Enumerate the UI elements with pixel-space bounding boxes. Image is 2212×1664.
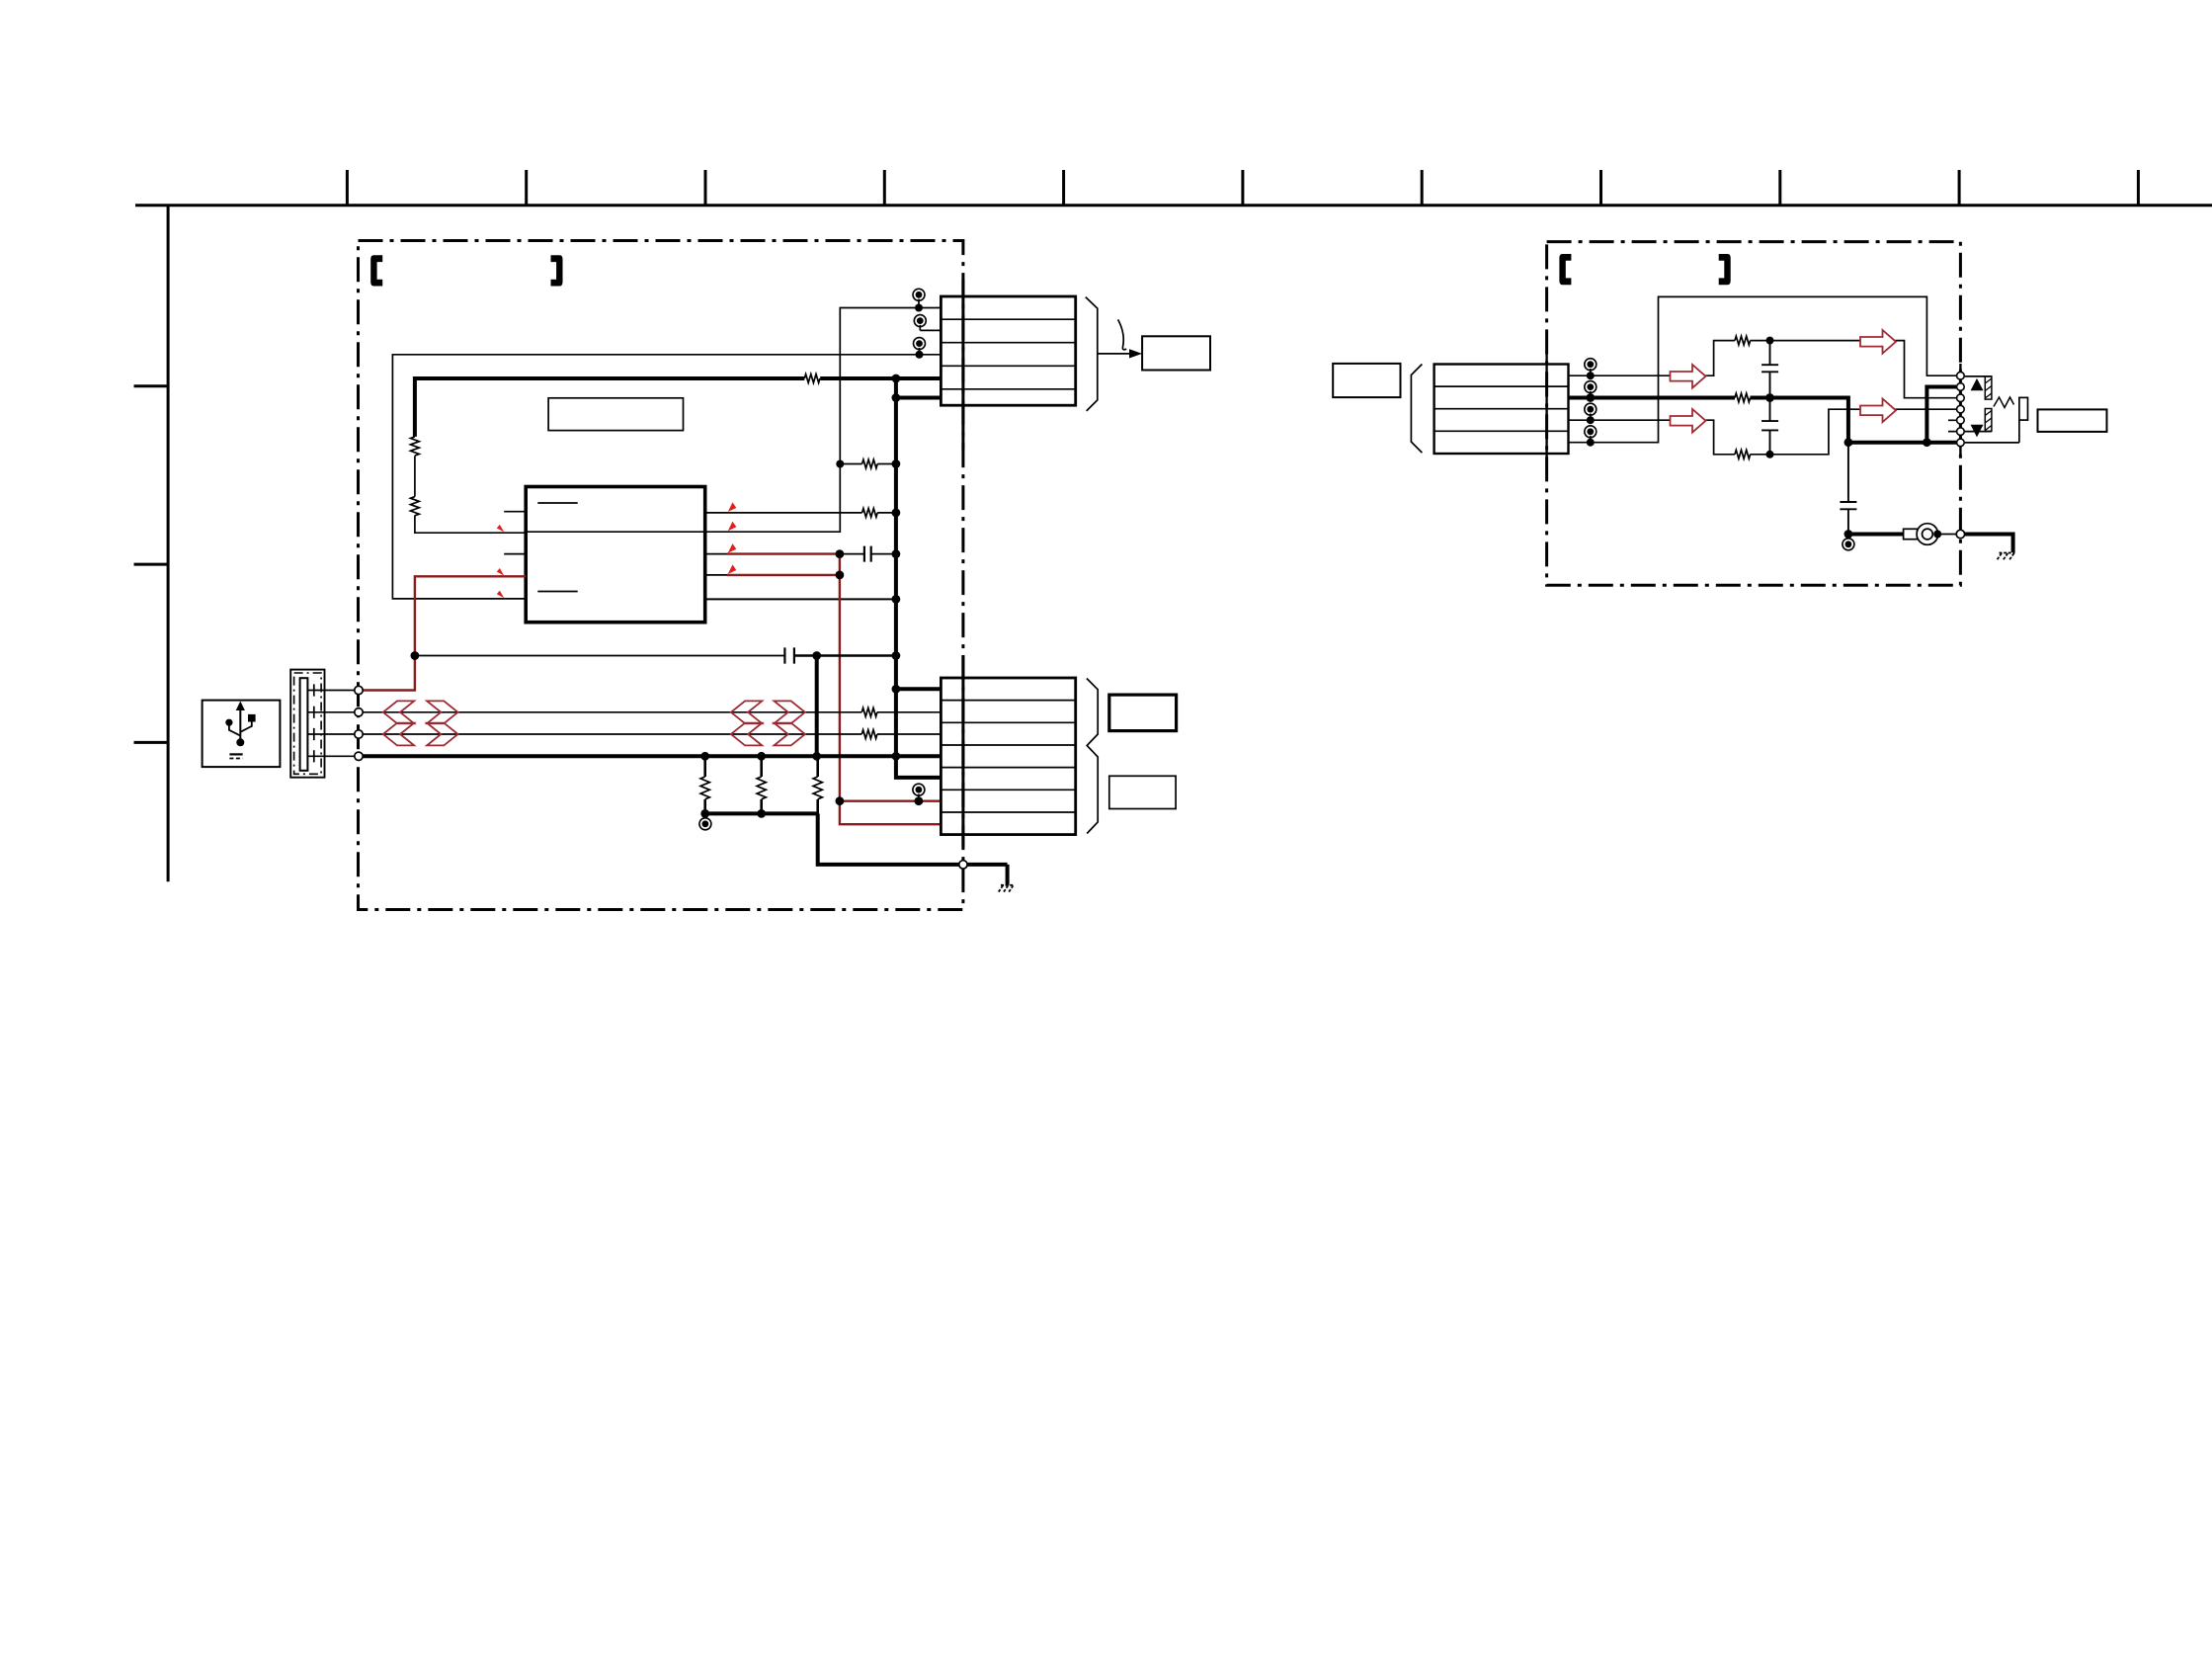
resistor R (x872-888 y469.5) — [862, 459, 878, 468]
wire (thick): border node to chassis ground — [1965, 535, 2013, 553]
wire: resistor to bus — [877, 463, 896, 465]
USB logo box — [203, 701, 281, 768]
frame left tick 2 — [134, 563, 169, 566]
resistor R vertical (x713.7 y786-809) — [700, 777, 709, 799]
wire: bus to top connector row5 — [896, 396, 942, 400]
USB receptacle shield (dash-dot) — [294, 673, 322, 774]
wire (thick): corner x419.9 via resistor chain top — [415, 378, 804, 437]
capacitor C3 (x1870.9 y508-515.3 vertical) — [1840, 443, 1856, 535]
resistor R (x872-888 y720.8) — [861, 707, 877, 716]
dash-dot block border (right board) — [1547, 242, 1961, 586]
wire: resistor to bottom connector row2 — [877, 711, 942, 713]
connector CN top brace — [1086, 297, 1098, 411]
label box (CN bottom lower) — [1109, 776, 1176, 808]
USB pin 1 — [307, 684, 354, 696]
IC U1 NC stub pin (left, upper) — [504, 511, 526, 513]
resistor R (x1756-1771.5 y344.6) — [1735, 336, 1751, 345]
capacitor C (x794-804 y663.5) — [784, 647, 794, 663]
wire: resistor1 bottom — [703, 799, 706, 813]
connector CN bottom brace — [1087, 679, 1098, 834]
frame tick 2 — [525, 170, 528, 206]
label box (right of jack) — [2038, 409, 2107, 432]
jack spring contact zigzag — [1994, 397, 2014, 408]
solid border segment through jack contacts — [1959, 364, 1961, 455]
wire: pin1 up to resistor row — [1706, 341, 1736, 376]
solder lug (ring terminal) — [1904, 524, 1938, 545]
red signal arrowhead (IC right pin y561) — [728, 543, 737, 553]
red signal arrowhead (IC left pin y606) — [497, 591, 505, 599]
IC U1 NC stub pin (left, lower) — [504, 553, 526, 555]
node: open circle on border at ground wire — [959, 861, 967, 869]
USB trident symbol — [225, 702, 255, 759]
resistor R (x1756-1771.5 y402.5) — [1735, 393, 1751, 402]
dash-dot block border (left board) — [359, 241, 963, 910]
test point TP (top connector pin2) — [914, 315, 926, 331]
wire (red net): USB pin1 up to IC left pin y583.3 — [364, 576, 527, 690]
frame tick 6 — [1241, 170, 1244, 206]
USB receptacle inner blade — [300, 678, 308, 771]
label box (CN bottom upper, thick) — [1109, 695, 1177, 731]
wire: resistor to bus — [877, 512, 896, 514]
red signal arrowhead (IC left pin y539) — [497, 525, 505, 533]
wire (thick): right pin2 GND to resistor — [1569, 396, 1736, 400]
wire: right pin4 loop over top to jack detect contact — [1569, 296, 1957, 442]
resistor R vertical (x827.7 y786-809) — [813, 777, 822, 799]
frame tick 4 — [883, 170, 886, 206]
wire: red riser junction to capacitor — [840, 553, 864, 555]
wire: IC pin row to vertical riser x850 and top connector pin1 — [526, 308, 941, 533]
frame tick 1 — [346, 170, 349, 206]
bidirectional chevron arrows (D- near CN bottom) — [731, 723, 805, 746]
resistor R vertical (x770.7 y786-809) — [757, 777, 766, 799]
wire: capacitor line y663.5 from red riser — [415, 655, 785, 657]
wire: IC right pin y560.6 black stub — [705, 553, 727, 555]
title bracket left 2 — [1559, 254, 1571, 285]
wire: bus to bottom connector row1 — [896, 687, 942, 691]
title bracket right 2 — [1719, 254, 1731, 285]
wire: loop from top connector pin3 around IC to IC pin — [392, 355, 941, 599]
resistor R vertical (x419.9 y442-461) — [411, 437, 420, 456]
bidirectional chevron arrows (D+ near CN bottom) — [731, 701, 805, 723]
wire (red net): IC pin to red riser — [727, 552, 840, 554]
jack plug symbol: upper hatched body — [1965, 376, 1992, 399]
label box (right board, left side) — [1333, 364, 1400, 397]
frame left tick 3 — [134, 741, 169, 744]
junction dots (right board) — [1586, 337, 1941, 539]
wire (thick): resistor to top connector row4 — [820, 376, 941, 380]
test point TP (red VBUS row) — [913, 784, 925, 801]
connector CN top (952,300)-(1089,410) — [941, 296, 1075, 405]
frame tick 10 — [1958, 170, 1961, 206]
IC U1 — [526, 487, 705, 623]
wire: between resistors — [414, 456, 416, 496]
wire (red net): riser x849.9 down to USB VBUS rows — [840, 554, 942, 825]
wire (thick): USB pin4 GND rail to bottom connector row4 — [364, 754, 942, 758]
pull-down resistor stub 1 — [703, 756, 706, 777]
frame tick 11 — [2137, 170, 2140, 206]
frame left tick 1 — [134, 384, 169, 387]
capacitor C (x1791.5 y426.1-435.4 vertical) — [1761, 398, 1778, 455]
USB pin 2 — [307, 707, 354, 718]
title bracket left 1 — [370, 255, 382, 286]
pull-down resistor stub 2 — [760, 756, 763, 777]
test point TP (right pin3) — [1585, 403, 1597, 420]
node: open circle USB pin2 on border — [355, 708, 363, 716]
junction dots (left board) — [411, 304, 924, 818]
wire: resistor chain to IC left pin y539.2 — [415, 516, 526, 534]
wire (thick): GND path to jack sleeve contacts — [1751, 387, 1957, 443]
outline arrow A (pin1) — [1671, 365, 1706, 388]
test point TP (right pin2) — [1585, 381, 1597, 398]
capacitor C (x1791.5 y369-376.3 vertical) — [1761, 341, 1778, 398]
arrow to label (CN top) — [1098, 353, 1130, 355]
wire: IC right pin y581.9 black stub — [705, 574, 727, 576]
node: open circle USB pin4 on border — [355, 752, 363, 760]
red signal arrowhead (IC right pin y582) — [728, 564, 737, 574]
node: open circle USB pin3 on border — [355, 730, 363, 738]
solid border segment through top connector — [961, 280, 964, 450]
wire (thick): rail down to ground node — [818, 813, 1008, 884]
curved arrow arc at CN top — [1118, 319, 1127, 349]
wire: detect contact to tip box — [1965, 420, 2019, 443]
brace left of right connector — [1411, 365, 1422, 454]
bidirectional chevron arrows (USB D- line, near USB) — [383, 723, 458, 746]
connector CN right (1451.6,368.5)-(1587.5,459) — [1434, 365, 1569, 455]
jack tip small box — [2019, 397, 2028, 420]
wire: lug to border node — [1938, 534, 1956, 536]
frame tick 7 — [1421, 170, 1424, 206]
label box (CN top) — [1142, 336, 1210, 370]
wire: resistor2 bottom — [760, 799, 763, 813]
wire: vertical tie x826.7 y663.5-765.3 — [815, 656, 819, 757]
node: open circle border at lug wire — [1956, 530, 1964, 538]
wire: TP2 to top connector row2 — [920, 329, 941, 331]
wire: resistor to arrowB and corner down to jack tip contact — [1751, 341, 1957, 398]
wire: resistor3 bottom — [816, 799, 819, 813]
USB pin 3 — [307, 728, 354, 740]
wire: USB pin2 data line to resistor — [364, 711, 862, 713]
wire: resistor to bottom connector row3 — [877, 733, 942, 735]
wire: riser junction to resistor at y469.5 — [840, 463, 861, 465]
test point TP (right pin4) — [1585, 426, 1597, 443]
test point TP (top connector pin1) — [913, 289, 925, 307]
label box (top middle) — [548, 398, 683, 431]
frame tick 9 — [1778, 170, 1781, 206]
wire: pin3 down to resistor row — [1706, 420, 1736, 455]
red signal arrowhead (IC right pin y538) — [728, 522, 737, 532]
capacitor C (x874.9-881.7 y560.6) — [864, 546, 871, 562]
red signal arrowhead (IC right pin y519) — [728, 502, 737, 512]
connector CN bottom (952,686)-(1089,845) — [941, 678, 1075, 835]
wire: IC right pin y518.9 to resistor — [705, 512, 862, 514]
pull-down resistor stub 3 — [816, 756, 819, 777]
red signal arrowhead (IC left pin y583) — [497, 568, 505, 576]
wire (thick): C3 to solder lug — [1848, 533, 1904, 537]
black triangle marker down — [1971, 425, 1984, 438]
node: open circle USB pin1 on border — [355, 686, 363, 694]
wire: right pin3 to filter — [1569, 419, 1671, 421]
test point TP (right pin1) — [1585, 359, 1597, 376]
IC U1 pin underline bottom-left — [537, 591, 577, 593]
resistor R (x1756-1771.5 y459.8) — [1735, 450, 1751, 458]
outline arrow B (to tip) — [1860, 330, 1896, 354]
chassis ground symbol (right board) — [1997, 553, 2014, 561]
wire: resistor up through arrowC to jack ring contact — [1751, 409, 1957, 455]
test point TP (below C3) — [1843, 535, 1854, 550]
USB receptacle CN outer shell — [290, 670, 324, 778]
outline arrow (pin3) — [1671, 409, 1706, 433]
title bracket right 1 — [551, 255, 563, 286]
wire: capacitor to bus — [871, 553, 896, 555]
frame tick 3 — [704, 170, 707, 206]
frame tick 8 — [1599, 170, 1602, 206]
bidirectional chevron arrows (USB D+ line, near USB) — [383, 701, 458, 723]
test point TP (top connector pin3) — [914, 338, 926, 355]
IC U1 pin underline top-left — [537, 502, 577, 504]
wire: IC right pin y606.4 to bus — [705, 598, 896, 600]
solid border segment through bottom connector — [961, 655, 964, 848]
resistor R (x872-888 y743) — [861, 730, 877, 739]
solid border segment through right connector — [1545, 351, 1547, 464]
frame top rule — [135, 204, 2212, 207]
wire (thick): resistor network bottom rail — [705, 811, 818, 815]
black triangle marker up — [1971, 378, 1984, 390]
wire: capacitor to bus junction y663.5 — [794, 654, 896, 657]
frame left rule — [167, 206, 170, 882]
jack plug symbol: lower hatched body — [1965, 409, 1992, 432]
frame tick 5 — [1062, 170, 1065, 206]
test point TP (below resistor rail) — [699, 813, 711, 829]
wire: USB pin3 data line to resistor — [364, 733, 862, 735]
USB pin 4 — [307, 750, 354, 762]
headphone jack contacts on border — [1957, 372, 1965, 446]
chassis ground symbol (left board) — [998, 885, 1014, 893]
wire (thick bus x906.9) — [896, 378, 942, 778]
outline arrow C (to ring) — [1860, 399, 1896, 423]
wire (red net): IC pin y581.9 to red riser — [727, 574, 840, 576]
resistor R (x872-888 y518.9) — [862, 509, 878, 518]
resistor R vertical (x419.9 y502.6-521.5) — [411, 497, 420, 516]
resistor R (x814-830 y383) — [804, 374, 820, 383]
jack contact stubs c5 c6 — [1948, 420, 1956, 431]
wire: right pin1 to filter — [1569, 374, 1671, 376]
